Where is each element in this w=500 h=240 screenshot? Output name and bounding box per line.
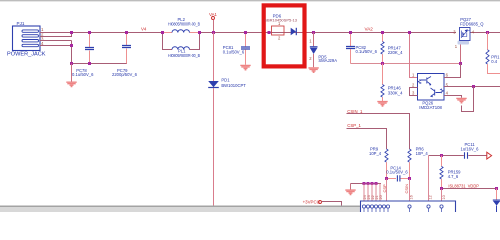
junction PC79 top (125, 31, 128, 34)
ref label PJ1 (17, 21, 25, 26)
ref label PR159 (448, 170, 461, 175)
wire riser IC pin to PC11 rail (428, 156, 430, 202)
wire VDDP riser to IC (441, 189, 443, 202)
svg-text:10: 10 (442, 195, 446, 199)
ground symbol (PQ26 pin4) (456, 98, 466, 102)
resistor PR144 (486, 33, 500, 74)
transistor pair PQ26 (418, 74, 445, 101)
junction PR159 top (440, 154, 443, 157)
value label 330K_4 (388, 90, 403, 95)
red highlight box around PD6 (264, 5, 305, 66)
ref label PD1 (221, 78, 230, 83)
svg-text:0.1u/50V_6: 0.1u/50V_6 (386, 170, 408, 175)
resistor PR159 (440, 156, 443, 189)
wire left ground bus (72, 49, 127, 64)
junction PC14 right (408, 177, 411, 180)
wire CSIN_1 (347, 114, 410, 150)
ground symbol (PC81) (240, 65, 250, 69)
power jack PJ1 (13, 26, 41, 51)
pin number 3 (PQ26) (412, 90, 415, 95)
pin number 4 (PJ1) (41, 41, 44, 46)
wire CSP_1 (347, 129, 387, 150)
svg-text:0.4: 0.4 (491, 59, 497, 64)
rotated pin labels above IC (363, 195, 446, 199)
junction pin1/pin2 node (70, 31, 73, 34)
IC pin name stems (364, 208, 442, 212)
junction inductor right node (198, 31, 201, 34)
wire CSIN riser to IC (409, 179, 411, 202)
wire gate bus y63.5 (351, 63, 461, 65)
value label IMD2AT108 (419, 105, 442, 110)
svg-text:330K_4: 330K_4 (388, 90, 403, 95)
value label POWER_JACK (7, 52, 46, 58)
value label 0.1u/50V_6 (PC81) (223, 50, 245, 55)
junction ground bus left (70, 62, 73, 65)
wire CSP riser to IC (386, 179, 388, 202)
value label HI0805R800R-00_B (PL1) (168, 53, 200, 58)
pin number 5 (PQ26) (446, 82, 449, 87)
svg-text:CSP: CSP (382, 184, 387, 193)
junction PC81 top (244, 31, 247, 34)
capacitor PC78 (85, 33, 94, 64)
diode D (bottom right) (493, 189, 500, 213)
net label CSP_1 (347, 123, 361, 128)
value label 0.1u/50V_6 (72, 72, 94, 77)
pin number 2 (PD6) (278, 36, 281, 41)
pin number 2 (PQ26) (412, 82, 415, 87)
pin number 1 (PJ1) (41, 27, 44, 32)
ref label PC81 (223, 45, 234, 50)
wire VA1 riser to PD1 (213, 33, 215, 82)
value label 10P_4 (PR9) (369, 151, 382, 156)
bottom window bar (0, 206, 362, 213)
diode PD1 (208, 81, 219, 88)
wire PQ27 gate riser (460, 45, 462, 64)
svg-text:0.1u/50V_6: 0.1u/50V_6 (356, 49, 378, 54)
wire PC11 rail (429, 155, 487, 157)
net stub VA1 circle (212, 17, 215, 33)
resistor PR147 (381, 33, 384, 64)
svg-text:+3VPCU: +3VPCU (303, 199, 320, 204)
top window edge line (0, 0, 500, 2)
wire PQ26 pin6 riser (444, 64, 461, 78)
wire pin3 stub (40, 40, 72, 42)
value label 10P_4 (PR6) (416, 151, 429, 156)
junction bus risers (363, 182, 378, 185)
wire pin3/4 riser to ground bus (71, 41, 73, 64)
svg-text:220K_4: 220K_4 (388, 50, 403, 55)
svg-text:20: 20 (379, 195, 383, 199)
junction pin5 node (472, 85, 475, 88)
junction PR147 top (381, 31, 384, 34)
junction pin4 node (70, 44, 73, 47)
ref label PR147 (388, 45, 402, 50)
TVS diode PD5 (310, 33, 318, 68)
svg-text:FDD6685_Q: FDD6685_Q (460, 22, 484, 27)
pin number 1 (PD5) (309, 39, 312, 44)
wire main rail after inductors (200, 32, 457, 34)
ref label PQ26 (422, 101, 433, 106)
junction PC78 bottom (88, 62, 91, 65)
pin number 6 (PQ26) (446, 73, 449, 78)
port arrow (PC11 out) (487, 152, 492, 159)
svg-text:PJ1: PJ1 (17, 21, 25, 26)
svg-text:POWER_JACK: POWER_JACK (7, 52, 46, 58)
junction PC78 top (88, 31, 91, 34)
svg-text:VA2: VA2 (365, 26, 374, 31)
wire ground bus bottom (351, 183, 382, 185)
pin number 4 (PQ26) (446, 90, 449, 95)
diode PD6 symbol (291, 28, 297, 35)
value label SMAJ29A (318, 58, 337, 63)
wire pin5 ground wrap (462, 87, 474, 112)
value label 0.1u/50V_6 (PC14) (386, 170, 408, 175)
svg-text:VA1: VA1 (209, 12, 218, 17)
net stub +3VPCU circle (319, 201, 322, 204)
svg-text:0.1u/50V_6: 0.1u/50V_6 (223, 50, 245, 55)
net label VA2 (365, 26, 374, 31)
net label V4 (141, 27, 147, 32)
wire main V4 rail (40, 32, 163, 34)
wire +3VPCU (322, 202, 342, 206)
wire main rail after PQ27 (470, 32, 500, 34)
junction inductor left node (161, 31, 164, 34)
capacitor PC82 (346, 33, 355, 64)
wire PQ26 pin1 riser (410, 33, 418, 78)
ground symbol (PD5) (308, 68, 318, 72)
junction PC82 top (349, 31, 352, 34)
svg-text:4.7_6: 4.7_6 (448, 174, 459, 179)
svg-text:2200p/50V_6: 2200p/50V_6 (112, 72, 138, 77)
svg-text:CSIN: CSIN (404, 184, 409, 194)
ref label PC11 (465, 142, 476, 147)
ref label PC14 (390, 165, 401, 170)
junction gate node (459, 62, 462, 65)
ground symbol (bottom bus) (345, 184, 355, 195)
junction PD6 anode node (268, 31, 271, 34)
ref label PL1 (178, 49, 186, 54)
wire pin4 stub (40, 45, 72, 47)
ref label PD5 (318, 54, 327, 59)
rotated net label CSIN (404, 184, 409, 194)
wire PQ26 pin4 to ground (444, 96, 462, 98)
ref label PC78 (76, 68, 87, 73)
pin number 1 (PD6) (278, 21, 281, 26)
wire PQ26 pin5 (444, 86, 500, 88)
ref label PR144 (491, 54, 500, 59)
ref label PL2 (178, 17, 186, 22)
net label ISL88731_VDDP (448, 183, 479, 188)
capacitor PC14 (387, 175, 410, 181)
value label SBR10450SP5-13 (264, 18, 297, 23)
pin number 1 (PQ26) (412, 73, 415, 78)
svg-text:10P_4: 10P_4 (369, 151, 382, 156)
svg-text:SMAJ29A: SMAJ29A (318, 58, 337, 63)
ref label PR6 (416, 147, 425, 152)
value label 0.1u/50V_6 (PC82) (356, 49, 378, 54)
capacitor PC11 (465, 152, 468, 159)
IC pin circles (362, 205, 443, 208)
net label +3VPCU (303, 199, 320, 204)
wire IC pin risers cluster (364, 184, 380, 202)
junction VA1 node (212, 31, 215, 34)
svg-text:10P_4: 10P_4 (416, 151, 429, 156)
resistor PR146 (381, 64, 384, 102)
junction PC14 left (385, 177, 388, 180)
inductor PL2 (top) (163, 30, 200, 33)
junction PD5 node (312, 31, 315, 34)
wire pin2 stub (40, 33, 72, 37)
rotated net label CSP (382, 184, 387, 193)
pin number 1 (PQ27 gate) (455, 44, 458, 49)
svg-text:SBR10450SP5-13: SBR10450SP5-13 (264, 18, 297, 23)
svg-text:0.1u/50V_6: 0.1u/50V_6 (72, 72, 94, 77)
junction PR147 bottom (381, 62, 384, 65)
transistor PQ27 (453, 28, 475, 45)
value label 2200p/50V_6 (112, 72, 138, 77)
ref label PR146 (388, 86, 402, 91)
value label 4.7_6 (448, 174, 459, 179)
value label 0.4_4 (491, 59, 497, 64)
pin number 3 (PJ1) (41, 36, 44, 41)
ground symbol (PR146) (377, 102, 387, 106)
value label 1u/16V_6 (461, 146, 480, 151)
ref label PR9 (370, 147, 379, 152)
capacitor PC79 (122, 33, 131, 64)
net label VA1 (209, 12, 218, 17)
wire PQ26 pins 2-3 jumper (410, 88, 418, 96)
svg-text:CSP_1: CSP_1 (347, 123, 361, 128)
svg-text:12: 12 (429, 195, 433, 199)
value label BW1010CPT (221, 83, 246, 88)
value label HI0805R800R-00_B (PL2) (168, 21, 200, 26)
resistor PR9 (385, 149, 388, 179)
wire VDDP net (442, 188, 497, 190)
svg-text:IMD2AT108: IMD2AT108 (419, 105, 442, 110)
resistor PR6 (408, 149, 411, 179)
diode PD6 package rect (272, 26, 285, 35)
inductor PL1 (bottom, parallel) (163, 33, 200, 50)
svg-text:HI0805R800R-00_B: HI0805R800R-00_B (168, 21, 200, 26)
svg-text:V4: V4 (141, 27, 147, 32)
svg-text:ISL88731_VDDP: ISL88731_VDDP (448, 183, 479, 188)
ref label PD6 (273, 13, 282, 18)
pin number 2 (PJ1) (41, 32, 44, 37)
value label 220K_4 (388, 50, 403, 55)
svg-text:1u/16V_6: 1u/16V_6 (461, 146, 480, 151)
svg-text:16: 16 (410, 195, 414, 199)
ground symbol (jack) (66, 64, 76, 87)
pin number 2 (PD5) (309, 56, 312, 61)
svg-text:HI0805R800R-00_B: HI0805R800R-00_B (168, 53, 200, 58)
ref label PC79 (117, 68, 128, 73)
svg-text:PD1: PD1 (221, 78, 230, 83)
junction pin1 riser top (408, 31, 411, 34)
junction VDDP right (495, 187, 498, 190)
capacitor PC81 (241, 33, 250, 65)
wire PD1 anode down (213, 88, 215, 205)
ref label PQ27 (460, 17, 471, 22)
net label CSIN_1 (347, 109, 363, 114)
svg-text:BW1010CPT: BW1010CPT (221, 83, 246, 88)
value label FDD6685_Q (460, 22, 484, 27)
ref label PC82 (356, 45, 367, 50)
IC U1 (charger) box (361, 201, 456, 212)
junction VDDP left (440, 187, 443, 190)
junction PR144 top (486, 31, 489, 34)
